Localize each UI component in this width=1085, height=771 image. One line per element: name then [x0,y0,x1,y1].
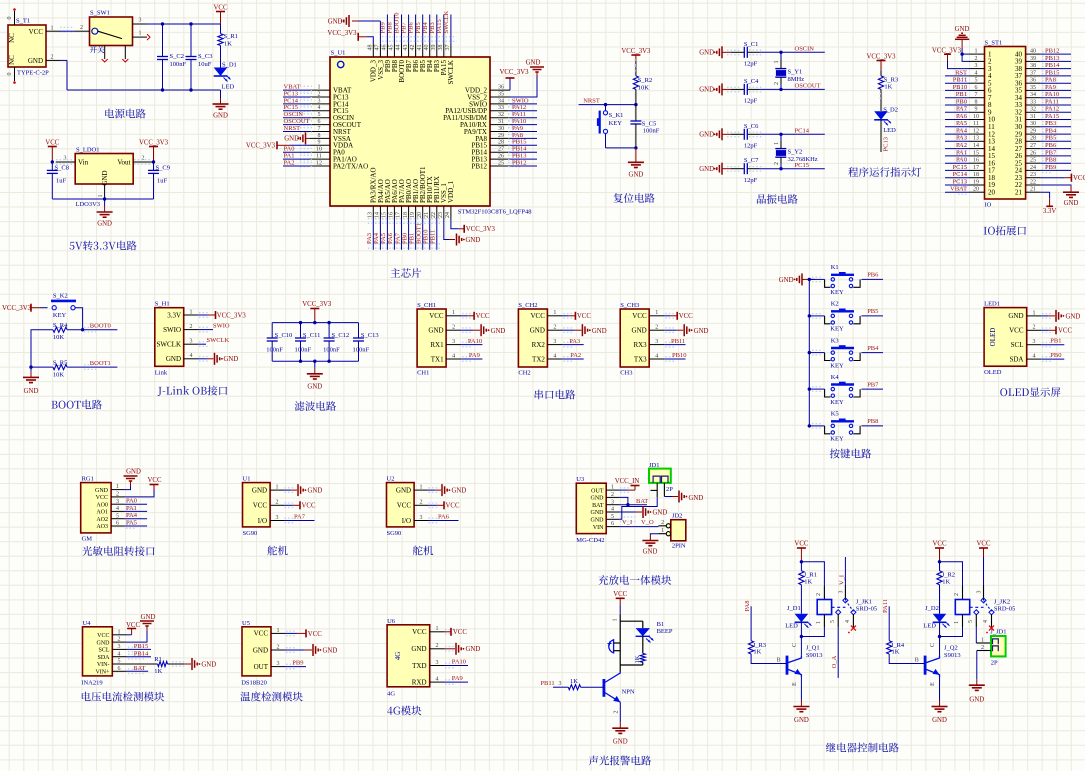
svg-text:S_R3: S_R3 [884,77,898,84]
svg-text:RX1: RX1 [430,341,444,349]
svg-text:PB1: PB1 [956,91,967,98]
svg-text:PA8: PA8 [744,601,751,612]
svg-text:SWCLK: SWCLK [443,10,450,33]
resistor 1K below LED [642,636,644,653]
svg-text:GND: GND [97,221,112,228]
svg-text:AO1: AO1 [96,510,108,516]
capacitor C10 100nF [271,323,273,338]
svg-text:PB12: PB12 [1045,48,1059,55]
pin 5 of U3 (GND) [606,518,619,520]
svg-text:PA9: PA9 [452,675,463,682]
svg-text:GND: GND [629,171,644,178]
wire bottom rail [272,360,358,362]
svg-text:5: 5 [318,112,321,118]
svg-text:6: 6 [611,521,614,527]
svg-text:PB4: PB4 [422,22,429,34]
svg-text:SG90: SG90 [243,530,258,537]
svg-text:NC: NC [8,33,16,43]
svg-text:OUT: OUT [591,488,604,494]
net label V_I [620,516,636,518]
pin 4 of CH2 (TX2) [547,358,562,360]
svg-text:GND: GND [779,277,794,284]
svg-text:PA0: PA0 [956,157,967,164]
net label PA3 [945,140,970,142]
power port VCC [461,315,467,317]
svg-text:PB10: PB10 [672,352,686,359]
net label PB13 [508,154,520,156]
svg-text:S_R5: S_R5 [53,359,67,366]
net label PA2 [945,148,970,150]
unused pins of SW1 [104,46,106,60]
net label PA4 [379,219,381,250]
svg-text:1: 1 [118,629,121,635]
module U5 DS18B20 [242,627,271,676]
pin 3 of SW1 [133,23,148,25]
svg-text:GND: GND [699,132,714,139]
svg-text:VCC: VCC [253,502,268,510]
svg-text:PB1: PB1 [1050,337,1061,344]
svg-text:GND: GND [452,488,467,495]
svg-text:GND: GND [307,383,322,390]
svg-text:2: 2 [816,593,822,596]
net label SWCLK [450,15,452,45]
svg-text:PA2: PA2 [956,142,967,149]
wire R4 left to gnd rail [31,330,53,367]
pin 3 of U2 (I/O) [414,520,428,522]
pin 2 of U6 (GND) [430,648,445,650]
svg-text:S_K2: S_K2 [53,293,68,300]
pin 25 of U1 (PB12) [490,165,510,167]
svg-text:JD1: JD1 [649,462,659,469]
ground [220,90,222,98]
pin 4 of H1 (GND) [184,358,199,360]
svg-text:2: 2 [774,82,780,85]
net label PB9 [1041,169,1071,171]
svg-text:1: 1 [981,637,984,643]
svg-text:I/O: I/O [402,517,411,525]
svg-text:PA6: PA6 [956,113,968,120]
svg-text:S_U1: S_U1 [331,50,346,57]
svg-text:2: 2 [611,492,614,498]
pin 20 of ST1 [970,191,985,193]
pin 18 of ST1 [970,177,985,179]
svg-text:23: 23 [438,212,444,218]
svg-text:3: 3 [139,18,142,24]
svg-text:K3: K3 [831,337,839,344]
svg-text:PB3: PB3 [1045,120,1056,127]
title relay control circuit [826,743,899,753]
pin 30 of U1 (PA9/TX) [490,131,510,133]
svg-text:JD2: JD2 [672,513,682,520]
wire bus to K2 [809,315,824,317]
svg-text:4: 4 [845,620,851,623]
svg-text:GND: GND [308,488,323,495]
net label PA8 [1041,82,1071,84]
svg-text:2: 2 [276,500,279,506]
svg-text:J_R1: J_R1 [804,572,817,579]
title servo [413,546,433,556]
svg-text:LED: LED [222,84,235,91]
connector T1 (TYPE-C-2P) [8,25,46,67]
svg-text:16: 16 [389,212,395,218]
svg-text:12pF: 12pF [744,143,758,150]
svg-text:RST: RST [955,69,967,76]
svg-text:S_ST1: S_ST1 [985,40,1003,47]
svg-text:MG-CD42: MG-CD42 [576,537,604,544]
push button K1 [605,105,607,111]
relay contact pin 4 (no connect) [991,614,993,627]
svg-text:LED: LED [883,127,896,134]
svg-text:4: 4 [553,353,556,359]
svg-text:12pF: 12pF [744,98,758,105]
net label SWCLK [198,343,206,345]
svg-text:J_JK2: J_JK2 [994,599,1010,606]
relay coil J_JK2 SRD-05 [962,586,964,600]
crystal Y2 32.768KHz [780,134,782,141]
pin 14 of U1 (PA4/AO) [379,206,381,219]
pin 1 of CH3 (VCC) [649,315,664,317]
base resistor 1K [553,686,568,688]
pin 3 of H1 (SWCLK) [184,343,199,345]
MCU U1 STM32F103C8T6 [330,57,490,206]
net label PA10 [461,344,482,346]
wire key bus [808,279,810,426]
svg-text:VCC: VCC [397,502,412,510]
pin 13 of U1 (PA3/RX/AO) [372,206,374,219]
svg-text:GND: GND [97,640,111,646]
svg-text:STM32F103C8T6_LQFP48: STM32F103C8T6_LQFP48 [458,209,532,216]
pin 45 of U1 (PB8) [393,44,395,57]
svg-text:GND: GND [632,327,647,335]
pin 29 of U1 (PA8) [490,137,510,139]
push button K2 [831,310,854,312]
net label PA12 [1041,111,1071,113]
pin 28 of U1 (PB15) [490,144,510,146]
svg-text:VCC: VCC [446,503,460,510]
ground at J_JD1 [977,650,991,652]
svg-text:GND: GND [591,510,605,516]
svg-text:PA4: PA4 [126,512,138,519]
svg-text:PA2: PA2 [570,352,581,359]
svg-text:B1: B1 [657,621,665,628]
svg-text:AO2: AO2 [96,517,108,523]
svg-text:46: 46 [382,45,388,51]
svg-text:29: 29 [1030,129,1036,135]
svg-text:VIN+: VIN+ [95,670,110,676]
servo U1 SG90 [243,483,271,527]
svg-text:3: 3 [276,515,279,521]
net label PB5 [422,15,424,45]
capacitor C8 [51,162,53,170]
svg-text:VCC_3V3: VCC_3V3 [621,48,651,55]
transistor Q NPN [603,679,606,697]
svg-text:VCC: VCC [308,631,322,638]
svg-text:PB9: PB9 [292,659,303,666]
net label PA4 [124,518,147,520]
svg-text:TX1: TX1 [431,355,444,363]
pin 9 of ST1 [970,111,985,113]
pin 11 of U1 (PA1/AO) [310,158,330,160]
svg-text:NRST: NRST [284,125,301,132]
svg-text:VCC: VCC [613,591,627,598]
svg-text:14: 14 [375,212,381,218]
net label PB1 [1041,344,1064,346]
net label SWIO [198,329,213,331]
svg-text:48: 48 [368,45,374,51]
svg-text:J_R2: J_R2 [942,572,955,579]
pin GND of LDO1 [104,184,106,199]
svg-text:PB11: PB11 [671,338,685,345]
net label PB4 [861,352,883,354]
svg-text:J_Q1: J_Q1 [806,645,820,652]
wire JD1 pin1 down to VIN [619,497,657,519]
wire to net PC15 [759,168,825,170]
net label PA11 [1041,104,1071,106]
svg-text:47: 47 [375,45,381,51]
pin 1 of U3 (OUT) [606,489,619,491]
svg-text:PC14: PC14 [953,171,968,178]
title BOOT circuit [51,400,101,410]
svg-text:6: 6 [975,85,978,91]
svg-text:PC14: PC14 [795,128,810,135]
power port VCC_3V3 to VDDA [277,144,290,146]
svg-text:2: 2 [277,644,280,650]
svg-text:2: 2 [981,645,984,651]
pin 47 of U1 (VSS_3) [379,44,381,57]
svg-text:S_C6: S_C6 [744,123,759,130]
net label VBAT [300,85,312,87]
svg-text:2: 2 [975,56,978,62]
svg-text:PA6: PA6 [387,232,394,244]
relay contact pin 5 [975,614,977,627]
switch SW1 [90,17,133,46]
svg-text:U2: U2 [387,476,395,483]
pin 1 of ST1 [970,53,985,55]
net label PB11 [664,344,685,346]
svg-text:24: 24 [1030,165,1036,171]
svg-text:AO0: AO0 [96,502,108,508]
net label PA4 [945,133,970,135]
svg-text:PB9: PB9 [1045,164,1056,171]
capacitor C7 12pF [731,168,744,170]
resistor J_R4 1K [887,641,892,654]
wire bus to K4 [809,388,824,390]
svg-text:27: 27 [1030,143,1036,149]
pin 1 of CH2 (VCC) [547,315,562,317]
svg-text:1: 1 [452,310,455,316]
svg-text:VCC_3V3: VCC_3V3 [866,54,896,61]
svg-text:11: 11 [973,121,979,127]
pin 1 of U4 (VCC) [112,634,126,636]
net label PA10 [1041,97,1071,99]
svg-text:NPN: NPN [622,689,635,696]
net label PB3 [1041,126,1071,128]
svg-text:KEY: KEY [830,399,844,406]
svg-text:SDA: SDA [97,655,110,661]
net label PB1 [415,219,417,250]
svg-text:PA2: PA2 [284,159,295,166]
pin 40 of U1 (PB4) [429,44,431,57]
power port VCC_3V3 to VDD_3 [367,37,373,44]
capacitor C5 [635,105,637,121]
pin 4 of U1 (PC15) [310,110,330,112]
connector J_JD1 2P [975,627,977,643]
svg-text:PC15: PC15 [953,164,967,171]
pin 36 of U1 (VDD_2) [490,89,510,91]
pin 16 of U1 (PA6/AO) [393,206,395,219]
pin 35 of ST1 [1026,89,1041,91]
pin 1 of U5 (VCC) [271,632,285,634]
svg-text:31: 31 [498,119,504,125]
capacitor C11 100nF [300,323,302,338]
svg-text:VIN-: VIN- [97,662,110,668]
pin 29 of ST1 [1026,133,1041,135]
svg-text:GND: GND [253,646,268,654]
svg-text:S_H1: S_H1 [155,301,170,308]
svg-text:Vin: Vin [78,159,89,167]
relay switch [970,606,984,608]
pin 7 of ST1 [970,97,985,99]
svg-text:LDO3V3: LDO3V3 [76,201,101,208]
svg-text:TYPE-C-2P: TYPE-C-2P [17,70,49,77]
svg-text:S_C2: S_C2 [170,53,184,60]
svg-text:KEY: KEY [53,312,67,319]
net label BOOT1 [67,366,117,368]
pin 17 of U1 (PA7/AO) [401,206,403,219]
svg-text:2P: 2P [666,486,673,493]
svg-text:VCC_3V3: VCC_3V3 [327,30,357,37]
ground to pin22 [1041,184,1071,187]
svg-text:SDA: SDA [1009,355,1023,363]
svg-text:U4: U4 [83,620,92,627]
svg-text:DS18B20: DS18B20 [241,680,267,687]
svg-text:1K: 1K [884,84,892,91]
pin 3 of U1 (PC14) [310,103,330,105]
svg-text:10: 10 [973,114,979,120]
svg-text:1K: 1K [892,649,900,656]
pin 3 of CH1 (RX1) [446,344,461,346]
svg-text:8: 8 [318,133,321,139]
net label PB8 [393,15,395,45]
svg-text:PB6: PB6 [867,272,879,279]
svg-text:34: 34 [1030,92,1036,98]
svg-text:20: 20 [988,188,996,196]
svg-text:38: 38 [438,45,444,51]
svg-text:NC: NC [8,55,16,65]
svg-text:LED1: LED1 [984,301,1000,308]
svg-text:PB7: PB7 [1045,149,1057,156]
title IO expansion [984,226,1026,236]
net label RST [945,75,970,77]
svg-text:OUT: OUT [254,663,269,671]
pin 4 of U6 (RXD) [430,681,445,683]
net label PC13 [945,184,970,186]
pin 2 of U3 (GND) [606,496,619,498]
svg-text:U3: U3 [576,476,584,483]
svg-text:PB7: PB7 [401,22,408,34]
svg-text:VCC: VCC [126,622,140,629]
svg-text:AO3: AO3 [96,524,108,530]
svg-text:GND: GND [689,495,704,502]
connector H1 J-Link [155,308,184,367]
svg-text:19: 19 [973,179,979,185]
svg-text:PB5: PB5 [867,308,878,315]
pin 1 of U1 (GND) [270,489,284,491]
svg-text:2: 2 [954,593,960,596]
pin 3 of CH2 (RX2) [547,344,562,346]
svg-text:VCC_3V3: VCC_3V3 [2,305,32,312]
svg-text:OSCOUT: OSCOUT [795,83,821,90]
svg-text:GND: GND [428,327,443,335]
svg-text:SWCLK: SWCLK [447,60,455,85]
pin 46 of U1 (PB9) [386,44,388,57]
net label PB15 [508,141,520,143]
pin 3 of RG1 (AO0) [111,503,124,505]
svg-text:GND: GND [969,697,984,704]
wire VCC rail top [147,23,221,25]
svg-text:KEY: KEY [830,362,844,369]
svg-text:PB14: PB14 [1045,62,1060,69]
svg-text:17: 17 [973,165,979,171]
pin 33 of U1 (PA12/USB/DP) [490,110,510,112]
svg-text:PB4: PB4 [867,345,879,352]
svg-text:4G: 4G [394,652,402,661]
wire LED cathode to collector [939,622,941,656]
svg-text:6: 6 [118,666,121,672]
svg-text:3: 3 [611,499,614,505]
svg-text:2P: 2P [991,660,998,667]
svg-text:20: 20 [417,212,423,218]
svg-text:36: 36 [498,85,504,91]
net label PB9 [285,666,306,668]
svg-text:E: E [792,682,798,686]
svg-text:4: 4 [611,507,614,513]
svg-text:10K: 10K [53,334,65,341]
svg-text:J_D2: J_D2 [925,605,939,612]
pin 4 of ST1 [970,75,985,77]
ground at VSS_2 [510,76,537,97]
svg-text:KEY: KEY [830,326,844,333]
pin 30 of ST1 [1026,126,1041,128]
svg-text:12: 12 [973,129,979,135]
svg-text:PB6: PB6 [1045,142,1057,149]
svg-text:16: 16 [973,158,979,164]
svg-text:VCC: VCC [97,633,109,639]
net label VBAT [945,191,970,193]
svg-text:S_D1: S_D1 [222,62,237,69]
svg-text:VCC: VCC [29,28,44,36]
svg-text:PB8: PB8 [387,22,394,33]
svg-text:CH1: CH1 [417,370,429,377]
connector JD2 2PIN [671,520,686,541]
net label PB10 [945,89,970,91]
net label PA5 [945,126,970,128]
net label PA5 [386,219,388,250]
ground [445,648,456,650]
svg-text:CH2: CH2 [518,370,530,377]
pin 11 of ST1 [970,126,985,128]
svg-text:34: 34 [498,98,504,104]
svg-text:1K: 1K [753,649,761,656]
wire bus to K1 [809,278,824,280]
ground above [124,486,131,490]
svg-text:18: 18 [403,212,409,218]
svg-text:12pF: 12pF [744,61,758,68]
pin 1 of CH1 (VCC) [446,315,461,317]
svg-text:2: 2 [553,325,556,331]
ground [619,702,621,722]
svg-text:S9013: S9013 [944,652,961,659]
